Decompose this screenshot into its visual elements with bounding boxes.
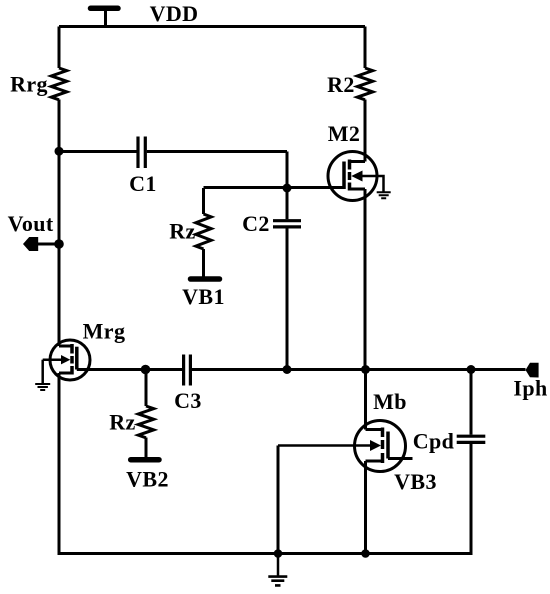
- svg-text:VDD: VDD: [150, 1, 199, 26]
- svg-text:Cpd: Cpd: [413, 428, 455, 453]
- svg-text:VB2: VB2: [126, 467, 169, 492]
- svg-text:R2: R2: [327, 72, 355, 97]
- svg-text:Rz: Rz: [109, 409, 135, 434]
- svg-text:M2: M2: [328, 121, 361, 146]
- svg-text:Rrg: Rrg: [10, 71, 48, 96]
- svg-text:C3: C3: [174, 388, 202, 413]
- svg-text:VB1: VB1: [182, 284, 225, 309]
- svg-text:C2: C2: [242, 211, 270, 236]
- svg-text:Rz: Rz: [169, 218, 195, 243]
- svg-text:Iph: Iph: [513, 376, 547, 401]
- svg-text:Mrg: Mrg: [83, 318, 126, 343]
- svg-text:C1: C1: [129, 171, 157, 196]
- svg-text:VB3: VB3: [394, 469, 437, 494]
- svg-text:Mb: Mb: [373, 389, 407, 414]
- svg-text:Vout: Vout: [8, 211, 54, 236]
